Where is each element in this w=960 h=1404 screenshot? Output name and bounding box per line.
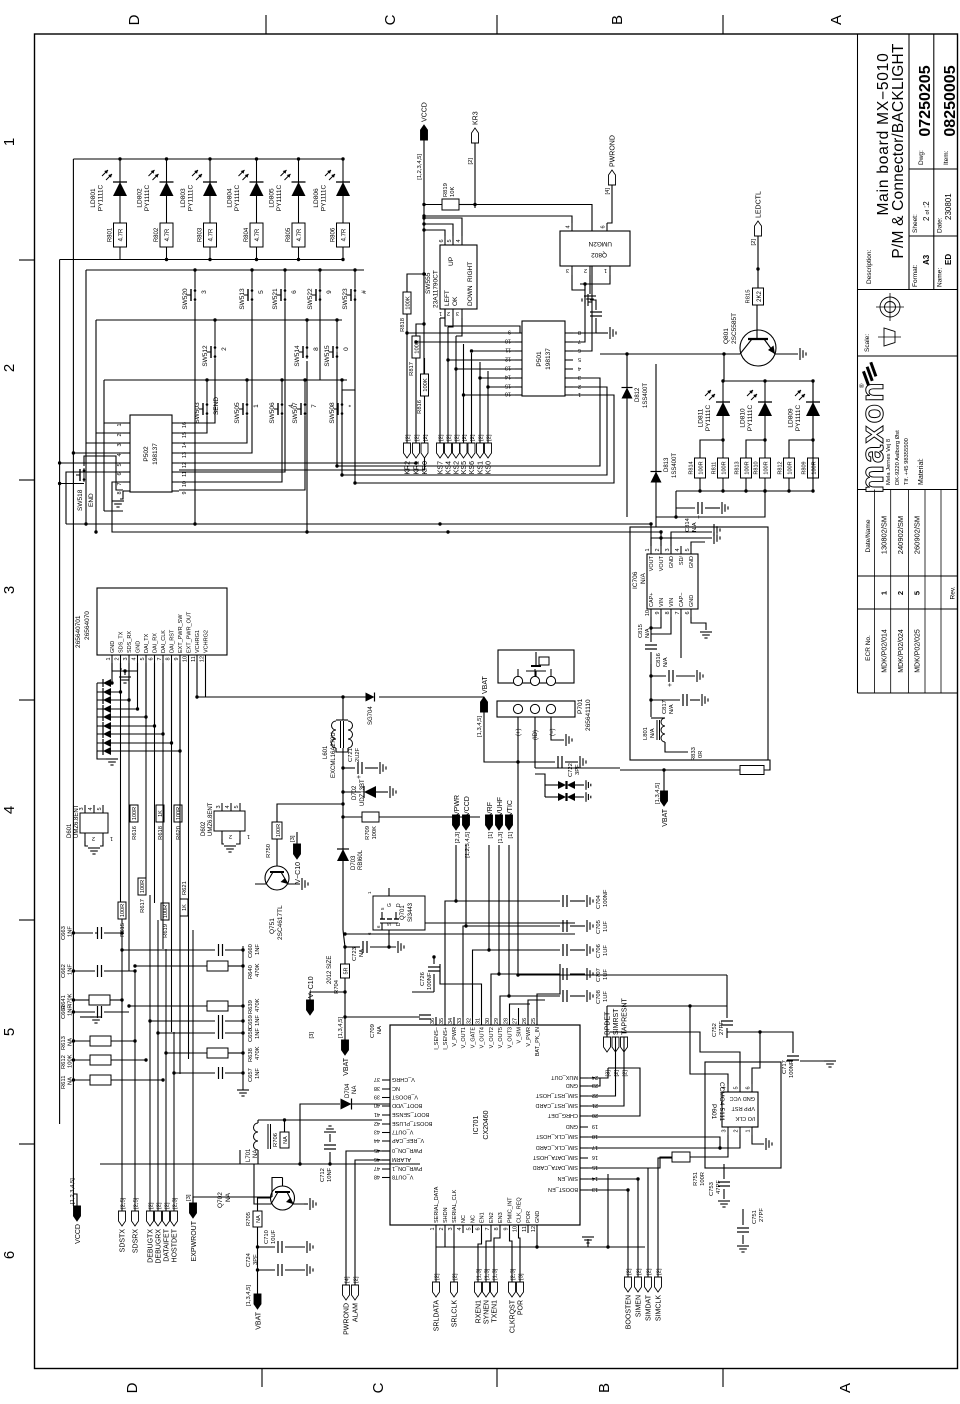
svg-text:100R: 100R [132, 807, 138, 820]
svg-text:C658: C658 [248, 1028, 254, 1042]
capacitor C751 27PF [737, 1231, 749, 1233]
wire MUX_OUT [588, 1068, 608, 1078]
svg-text:SW505: SW505 [234, 402, 241, 424]
svg-text:DEBUGTX: DEBUGTX [147, 1229, 154, 1263]
svg-text:ED: ED [944, 254, 953, 265]
switch SW512 [214, 320, 216, 345]
svg-text:1NF: 1NF [68, 964, 74, 975]
svg-text:08250005: 08250005 [942, 65, 959, 136]
svg-text:6: 6 [439, 239, 445, 242]
svg-text:of: of [925, 209, 931, 214]
svg-text:SW521: SW521 [272, 288, 279, 310]
svg-text:2: 2 [115, 657, 121, 660]
ground [587, 294, 589, 306]
svg-text:C726: C726 [420, 972, 426, 986]
svg-text:LEFT: LEFT [444, 290, 451, 306]
ground [609, 327, 611, 339]
P502 pin 13 [172, 452, 179, 454]
wires KS flags bundle [439, 318, 441, 443]
wire Q802 pin2 to ground [589, 275, 591, 294]
svg-text:1SS400T: 1SS400T [672, 453, 678, 478]
connector P501 198137 [522, 321, 565, 396]
IC701 pin 10 CLK_REQ [518, 1225, 520, 1233]
switch [194, 298, 197, 301]
svg-text:VIN: VIN [659, 598, 665, 607]
svg-text:31: 31 [476, 1018, 482, 1024]
esd diode [97, 750, 180, 752]
resistor R706 NA [280, 1132, 289, 1148]
svg-text:V−C10: V−C10 [308, 976, 315, 998]
svg-text:4.7R: 4.7R [165, 228, 171, 241]
IC701 pin 47 PWR_ON_1 [382, 1168, 390, 1170]
tvs diode pair 1 [545, 784, 558, 786]
svg-text:ALAM: ALAM [352, 1303, 359, 1322]
svg-text:VCCD: VCCD [75, 1224, 82, 1244]
svg-text:DAI_TX: DAI_TX [144, 633, 150, 653]
svg-text:[2]: [2] [353, 1276, 359, 1283]
IC701 pin 34 V_PWR [453, 1017, 455, 1025]
svg-text:C662: C662 [61, 964, 67, 978]
resistor R814 100R [695, 458, 706, 478]
svg-text:39: 39 [374, 1094, 380, 1100]
svg-text:R615: R615 [120, 923, 126, 937]
net flag [190, 1203, 197, 1218]
svg-text:13: 13 [505, 365, 511, 371]
svg-text:1NF: 1NF [68, 926, 74, 937]
IC701 pin 6 EN1 [481, 1225, 483, 1233]
svg-text:5: 5 [447, 239, 453, 242]
svg-text:PMIC_INT: PMIC_INT [508, 1197, 514, 1223]
svg-text:[2]: [2] [462, 434, 468, 441]
wire esd [128, 663, 130, 700]
svg-text:9: 9 [655, 611, 661, 614]
svg-text:5: 5 [140, 657, 146, 660]
svg-text:10: 10 [183, 656, 189, 662]
P501 pin 16 [515, 394, 522, 396]
net flag [486, 815, 493, 830]
svg-text:26: 26 [522, 1018, 528, 1024]
svg-text:5: 5 [234, 805, 240, 808]
net flag SIMEN [635, 1277, 642, 1292]
IC706 enclosure box [630, 527, 768, 760]
svg-text:SW523: SW523 [342, 288, 349, 310]
wires P701 [484, 712, 518, 762]
svg-text:V_BOOST: V_BOOST [391, 1094, 418, 1100]
capacitor C663 1NF [73, 932, 93, 934]
net flag [481, 697, 488, 712]
svg-text:C753: C753 [709, 1182, 715, 1196]
svg-text:[2,3]: [2,3] [172, 1197, 178, 1209]
transistor Q701 SI3443 mosfet [373, 896, 425, 930]
wire VCHRG1+2 rail [196, 663, 198, 697]
svg-text:100K: 100K [68, 1054, 74, 1068]
net flag KS5 [460, 443, 467, 458]
esd diode [97, 699, 129, 701]
svg-text:B: B [596, 1383, 613, 1393]
svg-text:LD803: LD803 [180, 188, 187, 208]
svg-text:1SS400T: 1SS400T [643, 383, 649, 408]
P502 pin 14 [172, 442, 179, 444]
svg-text:NC: NC [392, 1085, 400, 1091]
ground [106, 758, 118, 760]
svg-text:SIM_RST_HOST: SIM_RST_HOST [535, 1092, 578, 1098]
svg-text:1: 1 [110, 835, 113, 841]
capacitor C709 NA [435, 1017, 437, 1025]
svg-text:R803: R803 [198, 227, 204, 242]
IC701 pin 33 V_OUT1 [462, 1017, 464, 1025]
svg-text:6: 6 [1, 1251, 18, 1259]
svg-text:SW512: SW512 [202, 345, 209, 367]
svg-text:2: 2 [584, 267, 587, 273]
IC701 pin 41 BOOT_SENSE [382, 1114, 390, 1116]
svg-text:[1,3]: [1,3] [492, 1268, 498, 1280]
svg-text:DK-9220 Aalborg Øst: DK-9220 Aalborg Øst [895, 430, 901, 485]
svg-text:Scale:: Scale: [864, 334, 871, 352]
svg-text:38: 38 [374, 1085, 380, 1091]
svg-text:SW513: SW513 [239, 288, 246, 310]
ground [586, 920, 588, 932]
svg-text:100R: 100R [163, 905, 169, 918]
svg-text:6: 6 [291, 290, 298, 294]
svg-text:27PF: 27PF [719, 1021, 725, 1035]
ground R641 [80, 1016, 94, 1018]
wire signal run [165, 949, 167, 1211]
svg-text:D703: D703 [351, 855, 357, 870]
wire battery plus long [517, 762, 519, 975]
switch [354, 298, 357, 301]
resistor R811 100R [718, 458, 729, 478]
svg-text:GND: GND [110, 641, 116, 653]
net flag KR2 [404, 443, 411, 458]
svg-text:2: 2 [896, 591, 905, 595]
svg-text:20: 20 [592, 1112, 598, 1118]
svg-text:R812: R812 [778, 461, 784, 474]
svg-text:4: 4 [566, 225, 572, 228]
svg-text:2: 2 [117, 433, 123, 436]
P501 pin 4 [565, 368, 573, 370]
IC701 pin 2 SHDN [444, 1225, 446, 1233]
capacitor C712 10NF [329, 1152, 331, 1164]
P502 pin 6 [123, 471, 130, 473]
svg-text:UMZ6.8ENT: UMZ6.8ENT [208, 802, 214, 836]
svg-text:C705: C705 [596, 920, 602, 934]
SW555 pin 1 [444, 309, 446, 318]
svg-text:SIM_EN: SIM_EN [557, 1175, 578, 1181]
P501 pin 13 [515, 368, 522, 370]
svg-text:9: 9 [508, 329, 511, 335]
svg-text:4: 4 [456, 239, 462, 242]
svg-text:C657: C657 [248, 1068, 254, 1082]
capacitor C658 1NF [158, 1032, 215, 1034]
switch SW513 [251, 270, 253, 288]
SW555 pin 3 [461, 309, 463, 318]
svg-text:1: 1 [880, 591, 889, 595]
IC701 pin 18 SIM_CLK_HOST [580, 1136, 588, 1138]
svg-text:Rev.: Rev. [950, 586, 957, 599]
P501 pin 6 [565, 350, 573, 352]
svg-text:5R: 5R [343, 967, 349, 974]
svg-text:11: 11 [505, 347, 511, 353]
svg-text:19: 19 [592, 1123, 598, 1129]
svg-text:PWROND: PWROND [343, 1303, 350, 1335]
svg-text:4: 4 [722, 1086, 728, 1089]
nav switch SW555 23A11790CT [440, 245, 477, 309]
P502 pin 10 [172, 481, 179, 483]
wires IC706 left [651, 617, 661, 628]
net flag TXEN1 [491, 1282, 498, 1297]
connector P601 CCMO4-5111 outer box [705, 1062, 781, 1168]
svg-text:SD/: SD/ [679, 556, 685, 566]
svg-text:MDK/P02/024: MDK/P02/024 [898, 629, 905, 673]
svg-text:DATAIFET: DATAIFET [163, 1228, 170, 1262]
svg-text:4.7R: 4.7R [209, 228, 215, 241]
wire BAT_PK_IN [536, 1016, 538, 1018]
svg-text:VIN: VIN [669, 598, 675, 607]
svg-text:V_OUT7: V_OUT7 [392, 1129, 413, 1135]
IC701 pin 31 V_OUT4 [481, 1017, 483, 1025]
svg-text:KR3: KR3 [472, 111, 479, 125]
capacitor C662 1NF [73, 970, 95, 972]
svg-text:100NF: 100NF [789, 1060, 795, 1078]
svg-text:10: 10 [645, 610, 651, 616]
svg-text:I/O CLK: I/O CLK [735, 1115, 755, 1121]
svg-text:TXEN1: TXEN1 [491, 1300, 498, 1323]
svg-text:SIM_DATA_CARD: SIM_DATA_CARD [533, 1164, 578, 1170]
wire SW520 to long run [194, 302, 196, 524]
resistor R802 [160, 223, 173, 247]
wire esd [111, 663, 113, 683]
svg-text:1NF: 1NF [255, 1068, 261, 1079]
svg-text:DOWN: DOWN [467, 285, 474, 306]
svg-text:SDSRX: SDSRX [132, 1229, 139, 1253]
svg-text:[2]: [2] [405, 434, 411, 441]
svg-text:R809: R809 [802, 461, 808, 474]
svg-text:470K: 470K [255, 998, 261, 1012]
svg-text:GND VCC: GND VCC [730, 1095, 755, 1101]
Q802 pin 1 [609, 266, 611, 275]
IC701 pin 9 PMIC_INT [509, 1225, 511, 1233]
IC701 pin 28 V_OUT3 [509, 1017, 511, 1025]
svg-text:1NF: 1NF [255, 1028, 261, 1039]
svg-text:GND: GND [689, 595, 695, 607]
svg-text:2SC4617TL: 2SC4617TL [277, 905, 284, 940]
esd ground [97, 751, 110, 759]
svg-text:SIM_DATA_HOST: SIM_DATA_HOST [532, 1154, 578, 1160]
svg-text:SIM_CLK_HOST: SIM_CLK_HOST [535, 1133, 578, 1139]
svg-text:265641110: 265641110 [585, 699, 592, 731]
wire Q802 pin1 pin3 [580, 275, 610, 284]
svg-text:10: 10 [505, 338, 511, 344]
ground [119, 676, 131, 678]
svg-text:3: 3 [578, 374, 581, 380]
IC706 pin 6 [690, 609, 692, 617]
svg-text:6: 6 [476, 1227, 482, 1230]
svg-text:VPP RST: VPP RST [731, 1105, 755, 1111]
capacitor C724 3PF [257, 1247, 259, 1270]
svg-text:Dwg:: Dwg: [918, 150, 925, 165]
resistor R709 100K [341, 815, 344, 818]
svg-text:37: 37 [374, 1076, 380, 1082]
svg-text:PY1111C: PY1111C [144, 185, 151, 212]
svg-text:48: 48 [374, 1174, 380, 1180]
svg-text:16: 16 [182, 422, 188, 428]
wires SW555 right [424, 230, 445, 236]
svg-text:EXPWROUT: EXPWROUT [191, 1220, 198, 1261]
connector P701 lower box [497, 701, 575, 717]
IC701 pin 35 I_SENS+ [444, 1017, 446, 1025]
svg-text:I_SENS+: I_SENS+ [443, 1027, 449, 1050]
zone ticks right edge [265, 15, 267, 34]
svg-text:VBAT: VBAT [256, 1311, 263, 1329]
svg-text:4.7R: 4.7R [297, 228, 303, 241]
svg-text:R802: R802 [154, 227, 160, 242]
svg-text:C710: C710 [264, 1230, 270, 1244]
svg-text:BOOST_PLUSE: BOOST_PLUSE [392, 1120, 433, 1126]
wire LED cathode return ly59 [60, 259, 120, 261]
long rail lx240 [100, 1163, 420, 1165]
svg-text:NA: NA [68, 1077, 74, 1085]
svg-text:LD802: LD802 [137, 188, 144, 208]
wire esd [120, 663, 122, 692]
wire R814 jog [700, 440, 723, 458]
svg-text:*: * [348, 404, 355, 407]
svg-text:C704: C704 [596, 894, 602, 909]
diode D813 1SS400T [655, 364, 657, 517]
svg-text:C816: C816 [656, 653, 662, 667]
wires L701 [257, 1150, 259, 1164]
svg-text:®: ® [859, 383, 866, 388]
svg-text:18: 18 [592, 1133, 598, 1139]
svg-text:[2,3]: [2,3] [510, 1268, 516, 1280]
resistor R819 10K [442, 199, 459, 210]
P601 pin 3 [727, 1127, 729, 1135]
description section [909, 235, 958, 237]
wires R816-818 to VCCD rail junctions [407, 274, 424, 292]
svg-text:5: 5 [578, 356, 581, 362]
svg-text:DAI_CLK: DAI_CLK [161, 630, 167, 653]
svg-text:SW520: SW520 [182, 288, 189, 310]
keypad row bus 3 [104, 379, 347, 381]
ground [586, 968, 588, 980]
svg-text:4: 4 [1, 806, 18, 814]
net flag KS7 [437, 443, 444, 458]
connector pin 12 VCHRG2 [205, 655, 207, 663]
svg-text:MUX_OUT: MUX_OUT [550, 1074, 578, 1080]
resistor R809 100R [808, 458, 819, 478]
capacitor C706 1UF [487, 948, 490, 951]
svg-text:C659: C659 [248, 1015, 254, 1029]
IC706 pin 4 [680, 546, 682, 554]
svg-text:[2]: [2] [751, 239, 757, 246]
svg-text:6: 6 [746, 1086, 752, 1089]
svg-text:8: 8 [494, 1227, 500, 1230]
svg-text:[2]: [2] [438, 434, 444, 441]
ESD diode array [96, 683, 98, 751]
svg-text:NA: NA [283, 1136, 289, 1144]
switch [281, 412, 284, 415]
svg-text:VTIC: VTIC [507, 800, 514, 816]
ground Q702 [304, 1203, 308, 1205]
P601 pin 1 [751, 1127, 753, 1135]
P501 pin8 cap cluster [573, 318, 596, 333]
P502 pin 2 [123, 432, 130, 434]
svg-text:[2]: [2] [156, 1202, 162, 1209]
ground [824, 1060, 836, 1062]
switch SW503 [206, 380, 208, 402]
svg-text:SDSTX: SDSTX [119, 1229, 126, 1253]
svg-text:34: 34 [448, 1018, 454, 1024]
svg-text:C752: C752 [712, 1023, 718, 1037]
svg-text:[2]: [2] [486, 434, 492, 441]
wire conn to signals right [121, 663, 123, 669]
wire signal run [162, 663, 164, 949]
P501 pin 9 [515, 332, 522, 334]
svg-text:2SC5585T: 2SC5585T [731, 313, 738, 344]
IC701 pin 17 SIM_CLK_CARD [580, 1147, 588, 1149]
svg-text:V_OUT4: V_OUT4 [480, 1027, 486, 1048]
svg-text:3: 3 [216, 805, 222, 808]
IC IC701 CX20460 [390, 1025, 580, 1225]
diode D703 RBI60L inline [337, 849, 349, 861]
svg-text:10: 10 [513, 1226, 519, 1232]
connector pin 3 SDS_RX [128, 655, 130, 663]
transistor Q801 2SC5585T [740, 330, 776, 366]
resistor R833 0R [620, 769, 740, 771]
svg-text:TAPRESNT: TAPRESNT [621, 997, 628, 1035]
connector pin 4 GND [137, 655, 139, 663]
svg-text:V_OUT3: V_OUT3 [508, 1027, 514, 1048]
tvs diode pair 2 [545, 796, 558, 798]
svg-text:2: 2 [439, 1227, 445, 1230]
capacitor C661 1NF [73, 1011, 95, 1013]
IC706 pin 3 [670, 546, 672, 554]
resistor R801 [114, 223, 127, 247]
net flag SIMDAT [645, 1277, 652, 1292]
svg-text:G: G [387, 903, 393, 907]
svg-text:100R: 100R [722, 461, 728, 474]
svg-text:1NF: 1NF [255, 944, 261, 955]
SW555 pin 2 [452, 309, 454, 318]
svg-text:+: + [356, 775, 363, 779]
svg-text:R833: R833 [691, 747, 697, 761]
wire Q702 base [282, 1178, 284, 1187]
wires IC701 left pins to flags [435, 1233, 437, 1282]
switch [336, 355, 339, 358]
svg-text:2012 SIZE: 2012 SIZE [327, 956, 333, 984]
svg-text:C: C [382, 14, 399, 25]
resistor R813 100R [741, 458, 752, 478]
IC706 pin 10 [650, 609, 652, 617]
svg-text:BOOT_SENSE: BOOT_SENSE [392, 1111, 430, 1117]
P502 pin 1 [123, 422, 130, 424]
svg-text:R640: R640 [248, 965, 254, 979]
IC701 pin 25 BAT_PK_IN [536, 1017, 538, 1025]
LED array cathode bus [120, 259, 343, 261]
net flag ALAM [352, 1285, 359, 1300]
right ladder rail [242, 946, 244, 1090]
zone ticks left edge [261, 1369, 263, 1388]
svg-text:6: 6 [578, 347, 581, 353]
net flag [307, 1000, 314, 1015]
transistor Q702 NA [271, 1186, 295, 1210]
resistor R619 100R [161, 903, 169, 920]
svg-text:3PF: 3PF [253, 1254, 259, 1265]
P501 pin 3 [565, 377, 573, 379]
svg-text:28: 28 [504, 1018, 510, 1024]
IC701 pin 20 CHRG_DET [580, 1115, 588, 1117]
capacitor C723b to gnd [345, 946, 360, 948]
svg-text:1: 1 [106, 657, 112, 660]
